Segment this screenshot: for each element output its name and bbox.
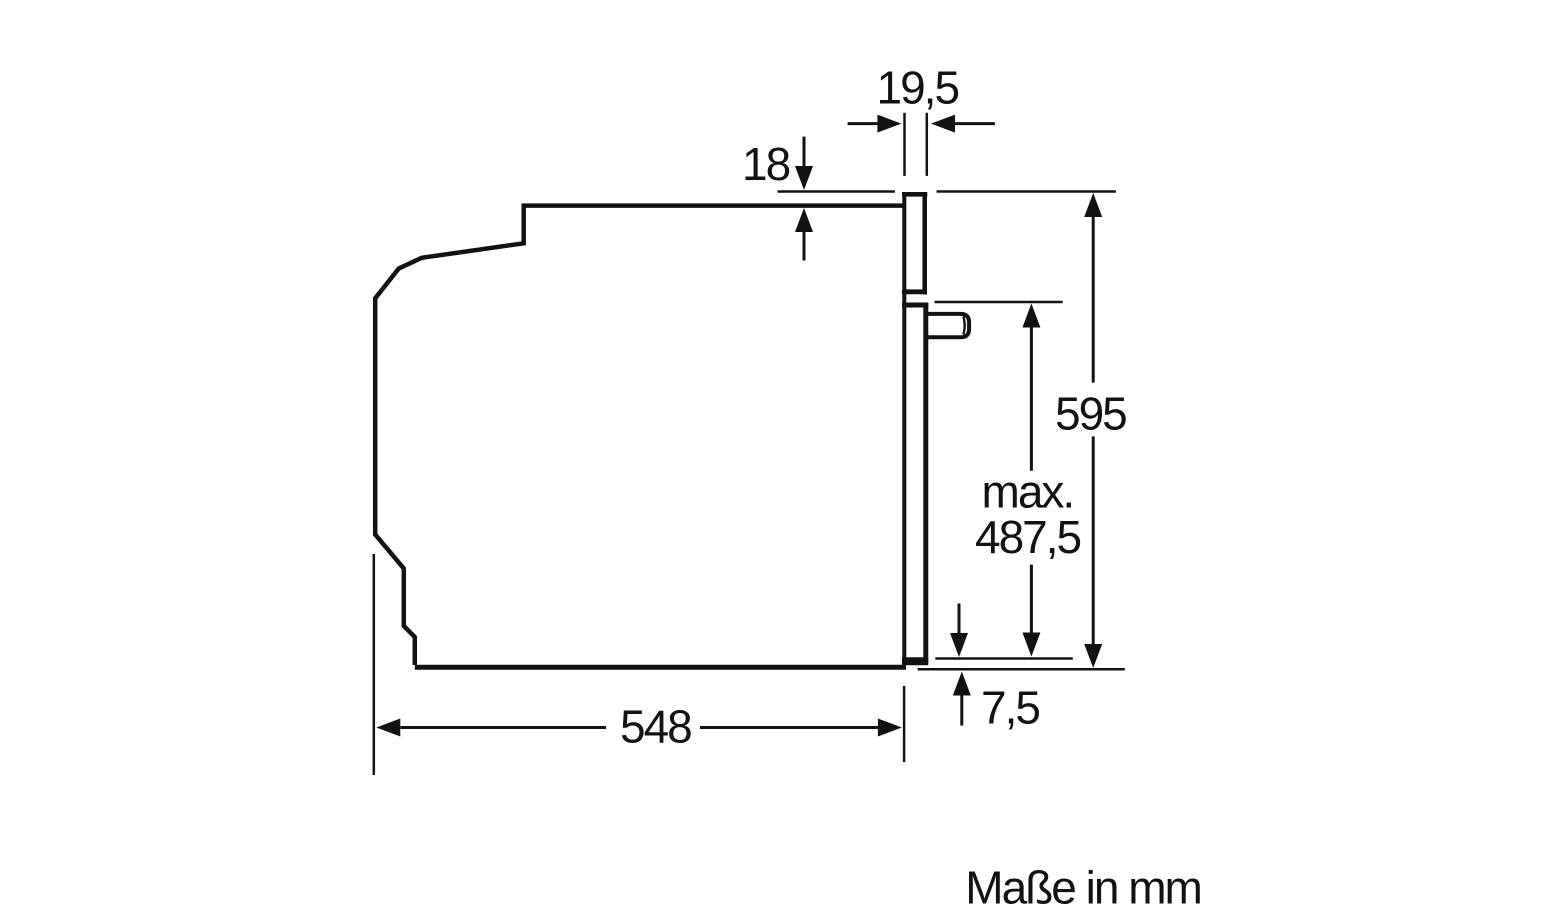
svg-text:487,5: 487,5 [975, 511, 1081, 563]
svg-text:Maße in mm: Maße in mm [965, 862, 1201, 914]
svg-text:7,5: 7,5 [981, 682, 1039, 734]
svg-text:max.: max. [982, 465, 1074, 517]
svg-text:18: 18 [742, 138, 790, 190]
svg-text:19,5: 19,5 [877, 61, 959, 113]
svg-text:548: 548 [620, 701, 691, 753]
svg-text:595: 595 [1055, 388, 1126, 440]
